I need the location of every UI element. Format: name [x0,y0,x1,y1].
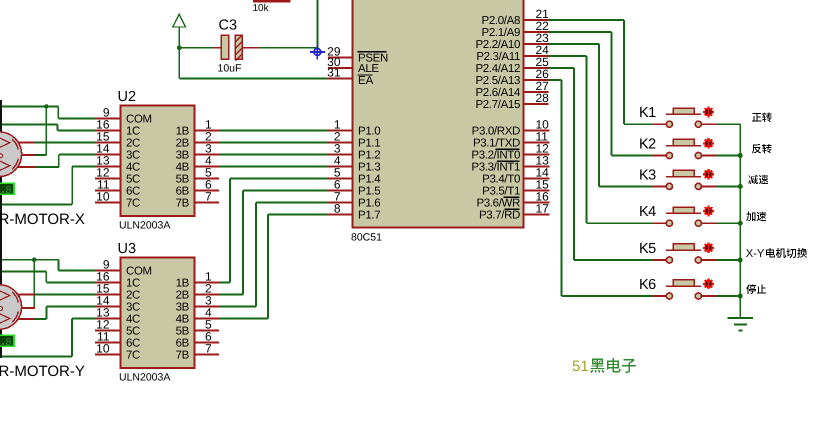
svg-text:K1: K1 [639,105,656,121]
svg-text:C3: C3 [219,17,238,33]
wire U1 P2.5/A13 to button K6 [549,80,653,296]
U2 pin 15 stub (2C) [95,142,121,144]
push button K2 [653,139,717,158]
svg-text:P3.0/RXD: P3.0/RXD [472,126,520,138]
svg-text:7B: 7B [176,198,190,210]
motor Y lead to U3 3C (pin 14) via jog [18,307,96,320]
svg-text:P1.0: P1.0 [358,126,380,138]
U1 pin 7 stub (P1.6) [328,202,353,204]
U1 pin name P3.2/INT0 with overbar [471,149,520,162]
svg-text:X-Y: X-Y [746,248,765,260]
stepper motor X rotor [0,132,22,177]
U1 pin 3 stub (P1.2) [328,154,353,156]
node junction dot on motor X common rail [44,104,49,109]
svg-text:P1.4: P1.4 [358,174,381,186]
svg-text:1C: 1C [126,278,140,290]
button K4 function label 加速 [746,212,766,222]
wire vertical from top edge down to node B (from 10k resistor net) [317,0,319,48]
U2 pin 11 stub (6C) [95,190,121,192]
U1 pin 22 stub (P2.1/A9) [524,31,549,33]
U2 pin 7 stub (7B) [195,202,220,204]
svg-text:K5: K5 [639,241,656,257]
svg-text:80C51: 80C51 [351,232,382,244]
U3 pin 2 stub (2B) [195,294,220,296]
U3 pin 4 stub (4B) [195,318,220,320]
U1 pin 29 stub [328,57,353,59]
U3 pin 9 stub (COM) [95,270,121,272]
U2 pin 10 stub (7C) [95,202,121,204]
U1 pin 11 stub (P3.1/TXD) [524,142,550,144]
push button K1 [653,108,717,127]
svg-text:4C: 4C [126,314,140,326]
junction dot ground bus at K6 [738,294,743,299]
wire button K5 to ground bus [717,259,741,261]
svg-text:6B: 6B [176,186,190,198]
svg-text:7C: 7C [126,198,140,210]
svg-text:P1.2: P1.2 [358,150,380,162]
svg-text:17: 17 [536,202,550,216]
U3 pin 1 stub (1B) [195,282,220,284]
U1 pin 27 stub (P2.6/A14) [524,91,549,93]
capacitor C3 (polarized, 10uF) [214,35,260,61]
svg-text:4B: 4B [176,314,190,326]
U3 pin 3 stub (3B) [195,306,220,308]
svg-text:COM: COM [126,114,152,126]
U3 pin 6 stub (6B) [195,342,220,344]
svg-text:P1.1: P1.1 [358,138,380,150]
watermark text 51黑电子 [572,358,636,375]
svg-text:P3.4/T0: P3.4/T0 [482,174,520,186]
svg-text:6B: 6B [176,338,190,350]
U1 pin 16 stub (P3.6/WR) [524,202,550,204]
U2 pin 2 stub (2B) [195,142,220,144]
svg-text:5B: 5B [176,174,190,186]
U1 pin 5 stub (P1.4) [328,178,353,180]
button K1 red actuator marker [703,107,714,118]
push button K5 [653,244,717,263]
U2 pin 1 stub (1B) [195,130,220,132]
stepper motor X step display [0,183,15,197]
wire U1 P2.1/A9 to button K2 [549,32,653,156]
wire from power arrow node to C3 left lead [179,47,213,49]
U2 pin 3 stub (3B) [195,154,220,156]
svg-text:P1.6: P1.6 [358,198,380,210]
node junction dot on motor Y common rail [32,257,37,262]
svg-text:28: 28 [536,91,550,105]
svg-text:10: 10 [96,341,110,355]
U3 pin 16 stub (1C) [95,282,121,284]
U3 pin 13 stub (4C) [95,318,121,320]
button K5 red actuator marker [703,243,714,254]
svg-text:P3.6/WR: P3.6/WR [476,198,520,210]
svg-text:3C: 3C [126,302,140,314]
svg-text:P1.3: P1.3 [358,162,380,174]
U3 pin 12 stub (5C) [95,330,121,332]
svg-text:2C: 2C [126,290,140,302]
svg-text:P2.0/A8: P2.0/A8 [482,15,520,27]
U1 pin name P3.6/WR with overbar [476,197,520,210]
button K6 function label 停止 [746,284,766,294]
U2 pin 9 stub (COM) [95,118,121,120]
svg-text:7B: 7B [176,350,190,362]
svg-text:P3.2/INT0: P3.2/INT0 [471,150,520,162]
svg-text:5C: 5C [126,326,140,338]
svg-text:6C: 6C [126,186,140,198]
svg-text:K4: K4 [639,204,656,220]
svg-text:U2: U2 [118,89,137,105]
svg-text:ULN2003A: ULN2003A [119,372,170,384]
U3 pin 15 stub (2C) [95,294,121,296]
wire U3 3B to U1 P1.6 [219,203,328,307]
push button K4 [653,207,717,226]
U1 pin 31 stub [328,78,353,80]
svg-text:R-MOTOR-Y: R-MOTOR-Y [0,363,85,380]
wire button K1 to ground bus [717,123,741,125]
wire U1 P2.2/A10 to button K3 [549,44,653,186]
svg-text:P2.5/A13: P2.5/A13 [475,75,520,87]
svg-text:COM: COM [126,266,152,278]
U1 pin 6 stub (P1.5) [328,190,353,192]
U1 pin 25 stub (P2.4/A12) [524,67,549,69]
button K2 red actuator marker [703,138,714,149]
svg-text:1B: 1B [176,278,190,290]
wire U2 4B to U1 P1.3 [219,166,328,168]
U2 pin 13 stub (4C) [95,166,121,168]
svg-text:3C: 3C [126,150,140,162]
power symbol (VCC up-arrow) [173,14,186,48]
U2 pin 16 stub (1C) [95,130,121,132]
svg-text:10uF: 10uF [218,63,242,75]
svg-text:P3.5/T1: P3.5/T1 [482,186,520,198]
U1 pin 21 stub (P2.0/A8) [524,19,549,21]
wire motor Y bottom lead to U3 4C (pin 13) [2,319,96,357]
wire motor X common rail to U2 COM (pin 9) with node dot [2,107,96,119]
ground symbol [728,318,754,331]
button K5 function label X-Y电机切换 [746,248,808,260]
svg-text:7C: 7C [126,350,140,362]
wire from C3 right lead to node B [259,47,318,49]
junction dot ground bus at K3 [738,184,743,189]
wire motor X bottom lead to U2 4C (pin 13) [2,167,96,205]
button K2 function label 反转 [752,144,772,154]
U3 ULN2003A body [121,258,195,369]
node B blue origin marker [310,45,325,60]
U2 ULN2003A body [121,106,195,217]
motor Y common lead down from node dot [22,260,36,308]
svg-text:8: 8 [334,202,341,216]
wire U2 3B to U1 P1.2 [219,154,328,156]
node A junction dot at capacitor C3 left [177,45,182,50]
svg-text:P2.7/A15: P2.7/A15 [475,99,520,111]
svg-text:P3.3/INT1: P3.3/INT1 [471,162,520,174]
svg-text:P2.2/A10: P2.2/A10 [475,39,520,51]
motor X common lead up to node dot [21,107,46,156]
U1 pin 13 stub (P3.3/INT1) [524,166,550,168]
svg-text:ULN2003A: ULN2003A [119,220,170,232]
wire button K4 to ground bus [717,222,741,224]
svg-text:1B: 1B [176,126,190,138]
U1 pin name EA with overbar [358,75,374,87]
svg-text:4B: 4B [176,162,190,174]
U3 pin 11 stub (6C) [95,342,121,344]
svg-text:P1.7: P1.7 [358,210,380,222]
wire U3 1B to U1 P1.4 [219,179,328,283]
wire motor X coil 1 feed to U2 1C (pin 16) [2,125,96,131]
wire motor Y common rail to U3 COM (pin 9) [2,260,96,271]
svg-text:P2.3/A11: P2.3/A11 [476,51,520,63]
wire U1 P2.0/A8 to button K1 [549,20,653,124]
svg-text:7: 7 [205,190,212,204]
svg-text:5C: 5C [126,174,140,186]
button K6 red actuator marker [703,279,714,290]
U1 80C51 MCU body [353,0,524,228]
svg-text:P1.5: P1.5 [358,186,380,198]
svg-text:8: 8 [5,185,11,197]
svg-text:3B: 3B [176,150,190,162]
U1 pin 8 stub (P1.7) [328,214,353,216]
U1 pin 14 stub (P3.4/T0) [524,178,550,180]
U1 pin 26 stub (P2.5/A13) [524,79,549,81]
svg-text:K2: K2 [639,137,656,153]
wire button K6 to ground bus [717,295,741,297]
svg-text:1C: 1C [126,126,140,138]
svg-text:10: 10 [96,189,110,203]
U2 pin 4 stub (4B) [195,166,220,168]
svg-text:2B: 2B [176,138,190,150]
U1 pin 2 stub (P1.1) [328,142,353,144]
wire U1 P2.3/A11 to button K4 [549,56,653,223]
U3 pin 5 stub (5B) [195,330,220,332]
svg-text:P2.6/A14: P2.6/A14 [475,87,520,99]
junction dot ground bus at K5 [738,258,743,263]
stepper motor Y step display [0,335,15,349]
wire button K3 to ground bus [717,185,741,187]
wire from node A down and right to 80C51 EA pin 31 [179,48,330,79]
ground bus vertical wire [739,124,741,318]
svg-text:P2.4/A12: P2.4/A12 [475,63,520,75]
wire button K2 to ground bus [717,155,741,157]
button K3 red actuator marker [703,169,714,180]
junction dot ground bus at K4 [738,221,743,226]
svg-text:2C: 2C [126,138,140,150]
push button K6 [653,280,717,299]
svg-text:P2.1/A9: P2.1/A9 [482,27,520,39]
U1 pin 12 stub (P3.2/INT0) [524,154,550,156]
button K3 function label 减速 [748,175,768,185]
wire motor Y coil 1 feed to U3 1C (pin 16) [2,272,96,283]
svg-text:10k: 10k [253,3,270,14]
stepper motor X body edge (left image crop) [0,100,2,358]
svg-text:51: 51 [572,358,589,375]
U1 pin 23 stub (P2.2/A10) [524,43,549,45]
svg-text:3B: 3B [176,302,190,314]
U1 pin 24 stub (P2.3/A11) [524,55,549,57]
svg-text:8: 8 [5,337,11,349]
stepper motor Y rotor [0,285,22,330]
resistor R1 body (10k, cut off at top edge) [253,0,291,2]
U3 pin 14 stub (3C) [95,306,121,308]
U1 pin 10 stub (P3.0/RXD) [524,130,550,132]
U1 pin name P3.3/INT1 with overbar [471,161,520,174]
svg-text:2B: 2B [176,290,190,302]
wire U2 2B to U1 P1.1 [219,142,328,144]
U1 pin name PSEN with overbar [358,52,388,65]
wire U3 4B to U1 P1.7 [219,215,328,319]
svg-text:R-MOTOR-X: R-MOTOR-X [0,211,85,228]
svg-text:4C: 4C [126,162,140,174]
U3 pin 7 stub (7B) [195,354,220,356]
U2 pin 5 stub (5B) [195,178,220,180]
svg-text:P3.1/TXD: P3.1/TXD [473,138,520,150]
U1 pin 1 stub (P1.0) [328,130,353,132]
wire U2 1B to U1 P1.0 [219,130,328,132]
button K1 function label 正转 [752,113,772,123]
U1 pin 15 stub (P3.5/T1) [524,190,550,192]
svg-text:EA: EA [358,75,374,87]
svg-text:6C: 6C [126,338,140,350]
svg-text:5B: 5B [176,326,190,338]
U2 pin 12 stub (5C) [95,178,121,180]
button K4 red actuator marker [703,206,714,217]
svg-text:ALE: ALE [358,63,379,75]
motor X lead to U2 3C (pin 14) via jog [18,155,96,168]
push button K3 [653,170,717,189]
wire U3 2B to U1 P1.5 [219,191,328,295]
svg-text:7: 7 [205,342,212,356]
svg-text:31: 31 [327,66,341,80]
U1 pin 4 stub (P1.3) [328,166,353,168]
motor X lead to U2 2C (pin 15) [18,142,95,144]
wire U1 P2.4/A12 to button K5 [549,68,653,260]
U1 pin 30 stub [328,67,353,69]
U1 pin 17 stub (P3.7/RD) [524,214,550,216]
svg-text:K3: K3 [639,167,656,183]
svg-text:U3: U3 [118,241,137,257]
U1 pin name P3.7/RD with overbar [479,209,520,222]
svg-text:P3.7/RD: P3.7/RD [479,210,520,222]
U2 pin 6 stub (6B) [195,190,220,192]
U1 pin 28 stub (P2.7/A15) [524,103,549,105]
U2 pin 14 stub (3C) [95,154,121,156]
junction dot ground bus at K2 [738,153,743,158]
svg-text:K6: K6 [639,277,656,293]
U3 pin 10 stub (7C) [95,354,121,356]
motor Y lead to U3 2C (pin 15) [19,294,96,296]
